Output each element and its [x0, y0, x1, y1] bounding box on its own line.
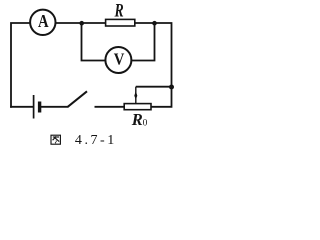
svg-text:R: R [114, 2, 124, 22]
svg-text:4.7-1: 4.7-1 [75, 133, 117, 148]
svg-text:R: R [131, 110, 143, 129]
svg-text:A: A [38, 11, 49, 31]
svg-text:0: 0 [143, 119, 148, 129]
svg-text:V: V [114, 50, 125, 69]
